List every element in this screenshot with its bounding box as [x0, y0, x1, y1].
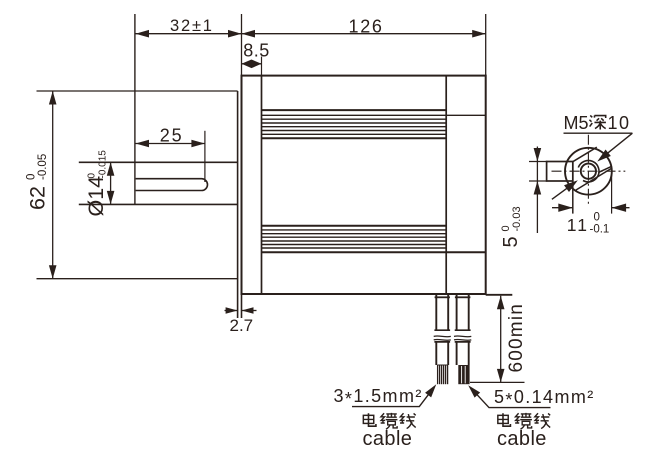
svg-text:-0.015: -0.015: [98, 150, 109, 179]
svg-text:8.5: 8.5: [243, 41, 270, 61]
svg-text:M5: M5: [564, 113, 589, 133]
svg-text:126: 126: [349, 16, 384, 36]
svg-text:-0.05: -0.05: [37, 154, 49, 180]
svg-text:32±1: 32±1: [170, 17, 214, 35]
svg-text:0: 0: [87, 173, 98, 179]
svg-text:0: 0: [25, 174, 37, 180]
svg-text:62: 62: [25, 186, 49, 210]
svg-text:5: 5: [500, 236, 522, 247]
svg-text:0: 0: [594, 212, 600, 224]
svg-text:11: 11: [567, 215, 589, 235]
svg-text:cable: cable: [497, 428, 547, 450]
svg-text:-0.03: -0.03: [511, 206, 523, 231]
svg-text:25: 25: [160, 125, 184, 145]
svg-text:5*0.14mm²: 5*0.14mm²: [494, 387, 595, 410]
svg-text:cable: cable: [363, 428, 413, 450]
svg-text:10: 10: [608, 113, 631, 133]
svg-text:2.7: 2.7: [230, 316, 254, 335]
svg-text:3*1.5mm²: 3*1.5mm²: [334, 386, 423, 409]
svg-text:600min: 600min: [506, 303, 527, 373]
svg-text:Ø14: Ø14: [84, 176, 108, 217]
svg-text:-0.1: -0.1: [590, 224, 610, 236]
